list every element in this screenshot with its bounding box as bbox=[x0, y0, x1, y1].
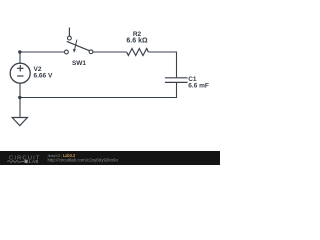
CircuitLab logo bbox=[7, 156, 41, 164]
svg-text:6.6 kΩ: 6.6 kΩ bbox=[126, 37, 148, 44]
wire source bottom to bottom wire bbox=[19, 83, 21, 97]
svg-text:6.6 mF: 6.6 mF bbox=[188, 83, 209, 90]
wire switch to resistor bbox=[93, 51, 127, 53]
resistor R2 bbox=[127, 49, 149, 56]
capacitor C1 bbox=[165, 78, 188, 83]
svg-text:SW1: SW1 bbox=[72, 60, 86, 67]
wire top-left horizontal bbox=[20, 51, 65, 53]
svg-text:http://circuitlab.com/c2oy69y9: http://circuitlab.com/c2oy69y92kn9o bbox=[48, 158, 119, 163]
svg-text:LAB: LAB bbox=[29, 159, 39, 164]
switch SW1 bbox=[65, 28, 93, 54]
ground bbox=[12, 98, 27, 126]
wire resistor to top-right corner bbox=[148, 52, 176, 77]
voltage source V2 bbox=[10, 63, 30, 83]
footer bar bbox=[0, 151, 220, 165]
node top-left junction bbox=[18, 50, 21, 53]
wire left vertical (source to top) bbox=[19, 52, 21, 63]
wire capacitor bottom to bottom-right corner bbox=[20, 82, 177, 97]
node bottom-left junction bbox=[18, 96, 21, 99]
svg-text:6.66 V: 6.66 V bbox=[34, 72, 53, 79]
